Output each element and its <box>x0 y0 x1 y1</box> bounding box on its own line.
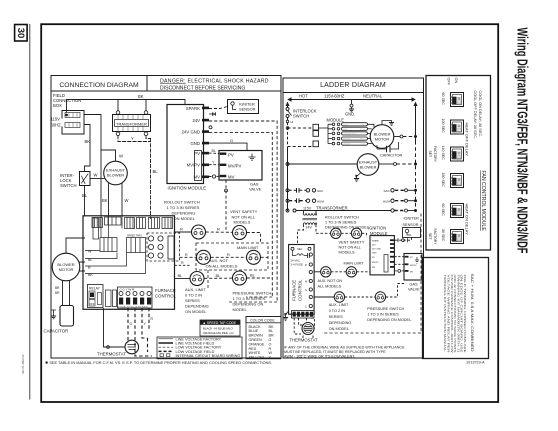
svg-text:CONTROL: CONTROL <box>298 279 303 301</box>
svg-text:115V: 115V <box>303 206 312 210</box>
svg-text:1 TO 3 IN SERIES: 1 TO 3 IN SERIES <box>325 221 357 225</box>
svg-text:▲ SPEED TAP CODE: ▲ SPEED TAP CODE <box>203 321 237 325</box>
svg-text:MV/PV: MV/PV <box>410 265 417 267</box>
svg-text:TWINNING KIT INSTRUCTION MANUA: TWINNING KIT INSTRUCTION MANUAL. <box>443 275 447 353</box>
svg-text:OFF: OFF <box>447 78 451 86</box>
gas valve <box>219 151 262 192</box>
svg-text:100 SEC: 100 SEC <box>441 119 445 134</box>
wire main limit right dashed <box>261 256 268 258</box>
transformer T2 ladder symbol <box>303 211 318 225</box>
svg-text:DEPENDING: DEPENDING <box>329 321 352 325</box>
module connector block <box>195 151 202 181</box>
svg-text:W: W <box>94 173 98 178</box>
outer frame <box>41 24 498 402</box>
rollout / limit switch section <box>164 200 277 314</box>
svg-text:BL: BL <box>153 169 159 174</box>
svg-text:115V: 115V <box>51 117 61 122</box>
svg-text:YELLOW: YELLOW <box>249 355 265 359</box>
exhaust blower <box>104 161 128 185</box>
svg-text:60 SEC: 60 SEC <box>441 204 445 217</box>
wire spark to igniter dashed <box>209 107 228 109</box>
FC bottom terminal strip <box>292 311 315 319</box>
svg-text:UNUSED: UNUSED <box>343 139 351 141</box>
svg-text:BK: BK <box>269 325 274 329</box>
svg-text:SPEED TAPS: SPEED TAPS <box>127 235 142 238</box>
svg-text:LADDER DIAGRAM: LADDER DIAGRAM <box>320 82 386 89</box>
svg-text:COOL ON DELAY: 36 SEC.: COOL ON DELAY: 36 SEC. <box>478 91 482 138</box>
svg-text:ORANGE-MH RED -LO: ORANGE-MH RED -LO <box>203 331 234 335</box>
dip switch heat off 100 sec <box>451 120 464 134</box>
svg-text:BL: BL <box>212 149 216 153</box>
svg-text:FURNACE: FURNACE <box>155 288 176 293</box>
node dot field box <box>65 114 68 117</box>
svg-text:1013723-A: 1013723-A <box>466 361 485 365</box>
svg-text:MAIN LIMIT: MAIN LIMIT <box>344 262 365 266</box>
connection diagram area border <box>51 91 281 358</box>
svg-text:DEPENDING: DEPENDING <box>172 211 196 216</box>
svg-text:24V GND: 24V GND <box>182 130 200 135</box>
svg-text:R: R <box>181 261 184 265</box>
svg-text:MODELS: MODELS <box>339 250 356 254</box>
fuse symbol <box>293 250 308 255</box>
svg-text:VALVE: VALVE <box>249 187 262 192</box>
svg-text:BLOWER: BLOWER <box>360 165 377 170</box>
svg-text:MUST BE REPLACED, IT MUST BE R: MUST BE REPLACED, IT MUST BE REPLACED WI… <box>284 350 386 354</box>
dip switch heat on 30 sec <box>451 230 464 244</box>
svg-text:SENSOR: SENSOR <box>239 107 256 112</box>
aux limit switch ladder <box>334 292 344 302</box>
svg-text:INTERNAL CIRCUIT BOARD WIRING: INTERNAL CIRCUIT BOARD WIRING <box>176 354 241 358</box>
svg-text:PRESSURE SWITCH: PRESSURE SWITCH <box>367 307 404 311</box>
svg-text:R: R <box>217 227 220 232</box>
main limit switch ladder <box>346 267 356 277</box>
wire exhaust blower top W <box>101 150 116 161</box>
svg-text:MODEL: MODEL <box>233 307 248 312</box>
svg-text:DEPENDING ON: DEPENDING ON <box>233 302 264 307</box>
svg-text:SENSOR: SENSOR <box>403 223 419 227</box>
page number 30 box <box>15 25 28 42</box>
svg-text:BLOWER: BLOWER <box>107 173 124 178</box>
svg-text:180 SEC: 180 SEC <box>441 173 445 188</box>
svg-text:1 TO 3 IN SERIES: 1 TO 3 IN SERIES <box>367 313 399 317</box>
wires blower to capacitor <box>63 281 70 306</box>
thermostat wires ladder dashed <box>294 318 314 338</box>
svg-text:ORANGE: ORANGE <box>249 342 266 346</box>
svg-text:FURNACE: FURNACE <box>292 280 297 301</box>
ladder right rail NEUTRAL <box>415 104 417 141</box>
svg-text:HEAT OFF DELAY: HEAT OFF DELAY <box>465 123 470 157</box>
page fold line <box>29 24 31 400</box>
wires module to gas valve ladder <box>395 256 405 258</box>
wires blower right to board <box>80 262 86 271</box>
svg-text:PV: PV <box>228 152 234 157</box>
svg-text:SEC: SEC <box>297 247 302 251</box>
main limit switch <box>247 250 261 264</box>
svg-text:BK: BK <box>138 94 144 99</box>
pressure switch ladder <box>375 292 385 302</box>
svg-text:M-LO: M-LO <box>360 139 365 141</box>
svg-text:TRANSFORMER: TRANSFORMER <box>316 205 348 210</box>
module connector blocks <box>313 124 319 130</box>
dip switch heat off 60 sec <box>451 93 464 107</box>
svg-text:HUM: HUM <box>383 199 390 203</box>
wire igniter to module dashed <box>395 238 412 241</box>
svg-text:W: W <box>125 198 129 203</box>
FC right terminals <box>309 253 312 308</box>
relay <box>88 285 104 308</box>
svg-text:60HZ: 60HZ <box>51 123 62 128</box>
wire 115V power bus <box>290 99 413 101</box>
danger box <box>147 76 281 92</box>
svg-text:24V GND: 24V GND <box>372 248 381 250</box>
svg-text:G: G <box>230 138 233 143</box>
small blocks <box>106 290 112 307</box>
dip switch heat off 180 sec <box>451 174 464 188</box>
svg-text:NOT ON ALL: NOT ON ALL <box>339 245 361 249</box>
speed tap code box <box>200 320 240 336</box>
twinning connector dashed box <box>147 233 180 261</box>
twinning terminals <box>148 236 174 259</box>
wire vent safety right dashed <box>247 233 261 244</box>
svg-text:Y: Y <box>131 136 134 141</box>
svg-text:COLOR CODE: COLOR CODE <box>250 319 275 323</box>
svg-text:O: O <box>269 342 272 346</box>
svg-text:441 01 2803 02: 441 01 2803 02 <box>21 354 25 374</box>
thermostat ladder <box>302 323 314 335</box>
rollout switch ladder 1 <box>331 228 341 238</box>
interlock switch <box>80 172 91 186</box>
wire interlock bottom BL <box>84 186 86 217</box>
thermostat wires dashed <box>104 308 126 348</box>
wires ignition module to gas valve <box>209 152 219 154</box>
svg-text:BR: BR <box>55 286 60 290</box>
wire rollout dashed <box>341 232 351 234</box>
furnace control ladder box <box>283 245 318 343</box>
wire 24V dashed to right bus <box>209 121 277 302</box>
exhaust blower ladder <box>357 154 379 176</box>
svg-text:SERIES: SERIES <box>329 315 343 319</box>
svg-text:AUX. NOT: AUX. NOT <box>209 258 228 263</box>
svg-text:FAN CONTROL MODULE: FAN CONTROL MODULE <box>480 171 486 232</box>
wiring legend <box>157 337 242 359</box>
wire exhaust blower rung <box>288 163 358 165</box>
dashed enclosure fragments <box>196 243 268 270</box>
svg-text:GND: GND <box>372 252 377 254</box>
svg-text:C: C <box>305 305 307 308</box>
svg-text:CAPACITOR: CAPACITOR <box>380 153 403 158</box>
wires pressure row <box>314 296 334 298</box>
wire field box to vertical feeder <box>84 115 101 217</box>
wire R rollout to vent safety dashed <box>206 231 233 233</box>
transformer <box>113 111 151 136</box>
svg-text:IGNITION: IGNITION <box>368 226 386 231</box>
wire BL board to aux limit <box>175 278 190 280</box>
ground stub left <box>51 310 56 316</box>
svg-text:MODULE: MODULE <box>327 118 345 123</box>
svg-text:24V: 24V <box>192 118 200 123</box>
wire blower top to board <box>66 238 85 253</box>
svg-text:SERIES: SERIES <box>185 298 200 303</box>
interlock switch ladder <box>286 108 289 111</box>
wire transformer top to BK bus <box>118 100 146 111</box>
svg-text:COOL OFF DELAY: 36 SEC.: COOL OFF DELAY: 36 SEC. <box>473 91 477 140</box>
gas valve solenoid ground <box>249 154 256 161</box>
board mid blocks <box>100 238 117 252</box>
svg-text:GND: GND <box>190 141 200 146</box>
svg-text:ON MODEL: ON MODEL <box>185 309 207 314</box>
wire BL dashed transformer to board <box>146 136 151 216</box>
wire BL pressure right dashed <box>247 277 272 279</box>
svg-text:SAC + HUM. 0.5 A MAX. COMBIN: SAC + HUM. 0.5 A MAX. COMBINED <box>470 274 474 353</box>
ladder left rail HOT <box>287 104 289 107</box>
svg-text:MOTOR: MOTOR <box>375 137 390 142</box>
svg-text:GREEN: GREEN <box>249 338 262 342</box>
aux switch <box>197 250 211 264</box>
exhaust blower ground <box>357 173 362 179</box>
dip switch heat off 140 sec <box>451 147 464 161</box>
svg-text:SWITCH: SWITCH <box>60 183 77 188</box>
svg-text:BLACK: BLACK <box>249 325 262 329</box>
svg-text:VALVE: VALVE <box>408 288 420 292</box>
FC ground <box>286 311 289 317</box>
svg-text:BK: BK <box>85 139 91 144</box>
svg-text:UNUSED: UNUSED <box>343 144 351 146</box>
svg-text:CONNECTION DIAGRAM: CONNECTION DIAGRAM <box>59 82 139 89</box>
svg-text:SAC: SAC <box>384 189 391 193</box>
wire BK field box to ignition module top <box>67 100 186 113</box>
module contact rows <box>319 123 375 146</box>
svg-text:BR: BR <box>269 334 274 338</box>
svg-text:G: G <box>305 289 307 292</box>
svg-text:1 TO 3 IN SERIES: 1 TO 3 IN SERIES <box>167 205 200 210</box>
svg-text:AWM - 105°C WIRE OR ITS EQUIVA: AWM - 105°C WIRE OR ITS EQUIVALENT. <box>284 355 355 359</box>
svg-text:FACTORY: FACTORY <box>433 146 437 163</box>
svg-text:BLUE: BLUE <box>249 329 259 333</box>
svg-text:BL: BL <box>250 273 256 278</box>
svg-text:✱ SEE TABLE IN MANUAL FOR C.F.: ✱ SEE TABLE IN MANUAL FOR C.F.M. VS. E.S… <box>45 360 272 365</box>
aux switch ladder <box>321 267 331 277</box>
svg-text:RED: RED <box>249 347 257 351</box>
wire 24V GND dashed to bus <box>209 132 272 297</box>
wire 24V secondary to furnace control <box>298 225 304 245</box>
svg-text:140 SEC: 140 SEC <box>441 146 445 161</box>
svg-text:COOL: COOL <box>343 124 348 126</box>
gas valve ladder <box>404 254 422 281</box>
svg-text:R: R <box>305 264 307 267</box>
svg-text:MV/PV: MV/PV <box>372 262 379 264</box>
svg-text:GAS: GAS <box>410 283 418 287</box>
board left strip <box>93 218 99 239</box>
board internal traces <box>85 216 151 274</box>
wires limit row <box>314 271 321 273</box>
wire aux left <box>180 256 197 258</box>
svg-text:Wiring Diagram NTG3/FBF, NTN3/: Wiring Diagram NTG3/FBF, NTN3/NBF & NDN3… <box>514 28 530 254</box>
svg-text:BL: BL <box>178 273 184 278</box>
svg-text:BR: BR <box>55 291 60 295</box>
svg-text:COOL: COOL <box>305 330 312 332</box>
field connection box <box>62 111 84 135</box>
rollout switch ladder 2 <box>351 228 361 238</box>
wire field box to interlock switch <box>84 125 90 172</box>
svg-text:HI: HI <box>291 120 294 124</box>
svg-text:BL: BL <box>82 193 88 198</box>
svg-text:MV: MV <box>228 175 235 180</box>
svg-text:R: R <box>269 347 272 351</box>
svg-text:HUM: HUM <box>317 199 324 203</box>
connection diagram title box <box>51 76 147 92</box>
svg-text:OFF: OFF <box>89 302 95 306</box>
svg-text:SET: SET <box>428 151 432 158</box>
svg-text:DEPENDING ON MODEL: DEPENDING ON MODEL <box>325 226 369 230</box>
svg-text:SAC: SAC <box>317 189 324 193</box>
svg-text:ON MODEL: ON MODEL <box>174 216 196 221</box>
svg-text:BL: BL <box>216 273 222 278</box>
svg-text:MV/PV: MV/PV <box>228 163 242 168</box>
svg-text:R: R <box>88 266 91 270</box>
svg-text:ON: ON <box>454 78 458 84</box>
transformer rung terminal <box>286 209 289 212</box>
board terminal block row (hatched) <box>92 217 173 253</box>
svg-text:SET: SET <box>428 233 432 240</box>
color code box <box>246 317 281 360</box>
svg-text:MV/PV: MV/PV <box>187 163 201 168</box>
svg-text:ROLLOUT SWITCH: ROLLOUT SWITCH <box>325 216 359 220</box>
svg-text:W: W <box>88 250 92 254</box>
svg-text:BLWR: BLWR <box>360 129 366 131</box>
svg-text:SPARK: SPARK <box>372 240 380 243</box>
wire R aux to main limit dashed <box>211 256 247 258</box>
svg-text:THERMOSTAT: THERMOSTAT <box>97 352 126 357</box>
svg-text:MAIN LIMIT: MAIN LIMIT <box>237 245 259 250</box>
SAC rung terminal <box>286 189 289 192</box>
svg-text:115V-60HZ: 115V-60HZ <box>324 94 345 99</box>
wire 24V secondary to rollout <box>316 225 330 234</box>
wire interlock to exhaust blower <box>90 178 104 180</box>
low voltage terminal strip <box>118 287 153 308</box>
pressure switch <box>233 271 247 285</box>
dashed enclosure <box>322 214 421 334</box>
rollout switch 1 <box>192 225 206 239</box>
svg-text:SPARK: SPARK <box>186 106 200 111</box>
svg-text:HEAT ON DELAY: HEAT ON DELAY <box>465 204 470 236</box>
svg-text:MOTOR: MOTOR <box>59 267 74 272</box>
aux limit switch <box>190 272 204 286</box>
svg-text:24V: 24V <box>306 226 313 230</box>
svg-text:ALL MODELS: ALL MODELS <box>318 284 342 288</box>
svg-text:30: 30 <box>15 28 26 39</box>
dip switch heat on 60 sec <box>451 204 464 218</box>
svg-text:IGNITER: IGNITER <box>404 217 420 221</box>
svg-text:ON ALL MODELS: ON ALL MODELS <box>206 263 238 268</box>
svg-text:G: G <box>269 338 272 342</box>
svg-text:RELAY: RELAY <box>89 287 101 291</box>
svg-text:DEPENDING ON MODEL.: DEPENDING ON MODEL. <box>367 318 412 322</box>
svg-text:ROLLOUT SWITCH: ROLLOUT SWITCH <box>164 200 200 205</box>
svg-text:HOT: HOT <box>299 94 308 99</box>
wire GND green to gas valve <box>209 143 247 150</box>
svg-text:VENT SAFETY: VENT SAFETY <box>230 209 258 214</box>
wire rung to module connector <box>288 127 314 129</box>
blower motor ladder <box>370 125 394 149</box>
wire transformer 24V Y dashed <box>118 136 151 142</box>
svg-text:HEAT: HEAT <box>305 326 311 329</box>
blower to rail <box>394 136 400 138</box>
capacitor ladder <box>377 142 399 149</box>
svg-text:C G Y W R: C G Y W R <box>120 288 136 292</box>
svg-text:24V: 24V <box>372 244 376 246</box>
svg-text:DISCONNECT BEFORE SERVICING: DISCONNECT BEFORE SERVICING <box>160 86 245 92</box>
ignition module <box>167 105 209 191</box>
wires exhaust blower to board BK W <box>109 183 123 216</box>
svg-text:3-4 FUSE: 3-4 FUSE <box>291 262 303 266</box>
svg-text:AUX. NOT ON: AUX. NOT ON <box>318 279 343 283</box>
svg-text:DANGER: ELECTRICAL SHOCK HAZA: DANGER: ELECTRICAL SHOCK HAZARD <box>160 79 269 85</box>
svg-text:VENT SAFETY: VENT SAFETY <box>339 241 365 245</box>
svg-text:IGNITION MODULE: IGNITION MODULE <box>168 186 207 191</box>
svg-text:THERMOSTAT: THERMOSTAT <box>290 338 319 343</box>
igniter sensor <box>228 100 259 114</box>
svg-text:SWITCH: SWITCH <box>293 114 309 119</box>
svg-text:60 SEC: 60 SEC <box>441 93 445 106</box>
wire R board to rollout <box>175 231 192 233</box>
svg-text:AUX. LIMIT: AUX. LIMIT <box>185 287 206 292</box>
svg-text:V I O B L K Y E L W H T R: V I O B L K Y E L W H T R E D <box>118 307 148 309</box>
HUM rung terminal <box>286 199 289 202</box>
svg-text:R: R <box>185 253 188 257</box>
svg-text:IF ANY OF THE ORIGINAL WIRE AS: IF ANY OF THE ORIGINAL WIRE AS SUPPLIED … <box>284 346 405 350</box>
fan control module (rotated panel) <box>426 76 491 251</box>
ladder lower 24V section <box>314 214 422 334</box>
svg-text:GND.: GND. <box>345 112 355 117</box>
capacitor <box>60 306 74 327</box>
svg-text:AUX. LIMIT: AUX. LIMIT <box>329 303 349 307</box>
svg-text:TRANSFORMER: TRANSFORMER <box>116 121 147 126</box>
svg-text:0 TO 2 IN: 0 TO 2 IN <box>329 309 346 313</box>
ground drop <box>351 100 353 105</box>
thermostat <box>125 340 139 354</box>
svg-text:MODELS: MODELS <box>234 220 251 225</box>
svg-text:PRESSURE SWITCH: PRESSURE SWITCH <box>233 291 272 296</box>
wire rung lower to module connector <box>288 146 314 148</box>
svg-text:FACTORY: FACTORY <box>433 229 437 246</box>
vent safety switch <box>233 226 247 240</box>
svg-text:NEUTRAL: NEUTRAL <box>363 94 383 99</box>
svg-text:30 SEC: 30 SEC <box>441 229 445 242</box>
twinning note box (rotated) <box>423 258 489 359</box>
svg-text:BROWN: BROWN <box>249 334 263 338</box>
svg-text:PV: PV <box>194 151 200 156</box>
svg-text:R: R <box>180 227 183 232</box>
svg-text:BK: BK <box>102 198 108 203</box>
svg-text:W: W <box>119 154 123 159</box>
svg-text:NOT ON ALL: NOT ON ALL <box>232 214 256 219</box>
svg-text:DEPENDING: DEPENDING <box>185 304 209 309</box>
svg-text:CONTROL: CONTROL <box>155 294 177 299</box>
svg-text:G: G <box>130 322 133 326</box>
blower ground <box>382 121 392 125</box>
module terminals <box>202 107 209 179</box>
furnace control board <box>83 216 180 309</box>
svg-text:CAPACITOR: CAPACITOR <box>44 329 69 334</box>
svg-text:BOX: BOX <box>53 103 62 108</box>
svg-text:0 TO 2 IN: 0 TO 2 IN <box>185 293 202 298</box>
svg-text:BL: BL <box>269 329 274 333</box>
ladder diagram title box / area border <box>283 78 424 358</box>
svg-text:COM/24V (OPT): COM/24V (OPT) <box>343 133 357 135</box>
wire BL aux limit to pressure dashed <box>204 277 232 279</box>
svg-text:ON MODEL: ON MODEL <box>329 327 349 331</box>
blower motor <box>52 253 80 281</box>
